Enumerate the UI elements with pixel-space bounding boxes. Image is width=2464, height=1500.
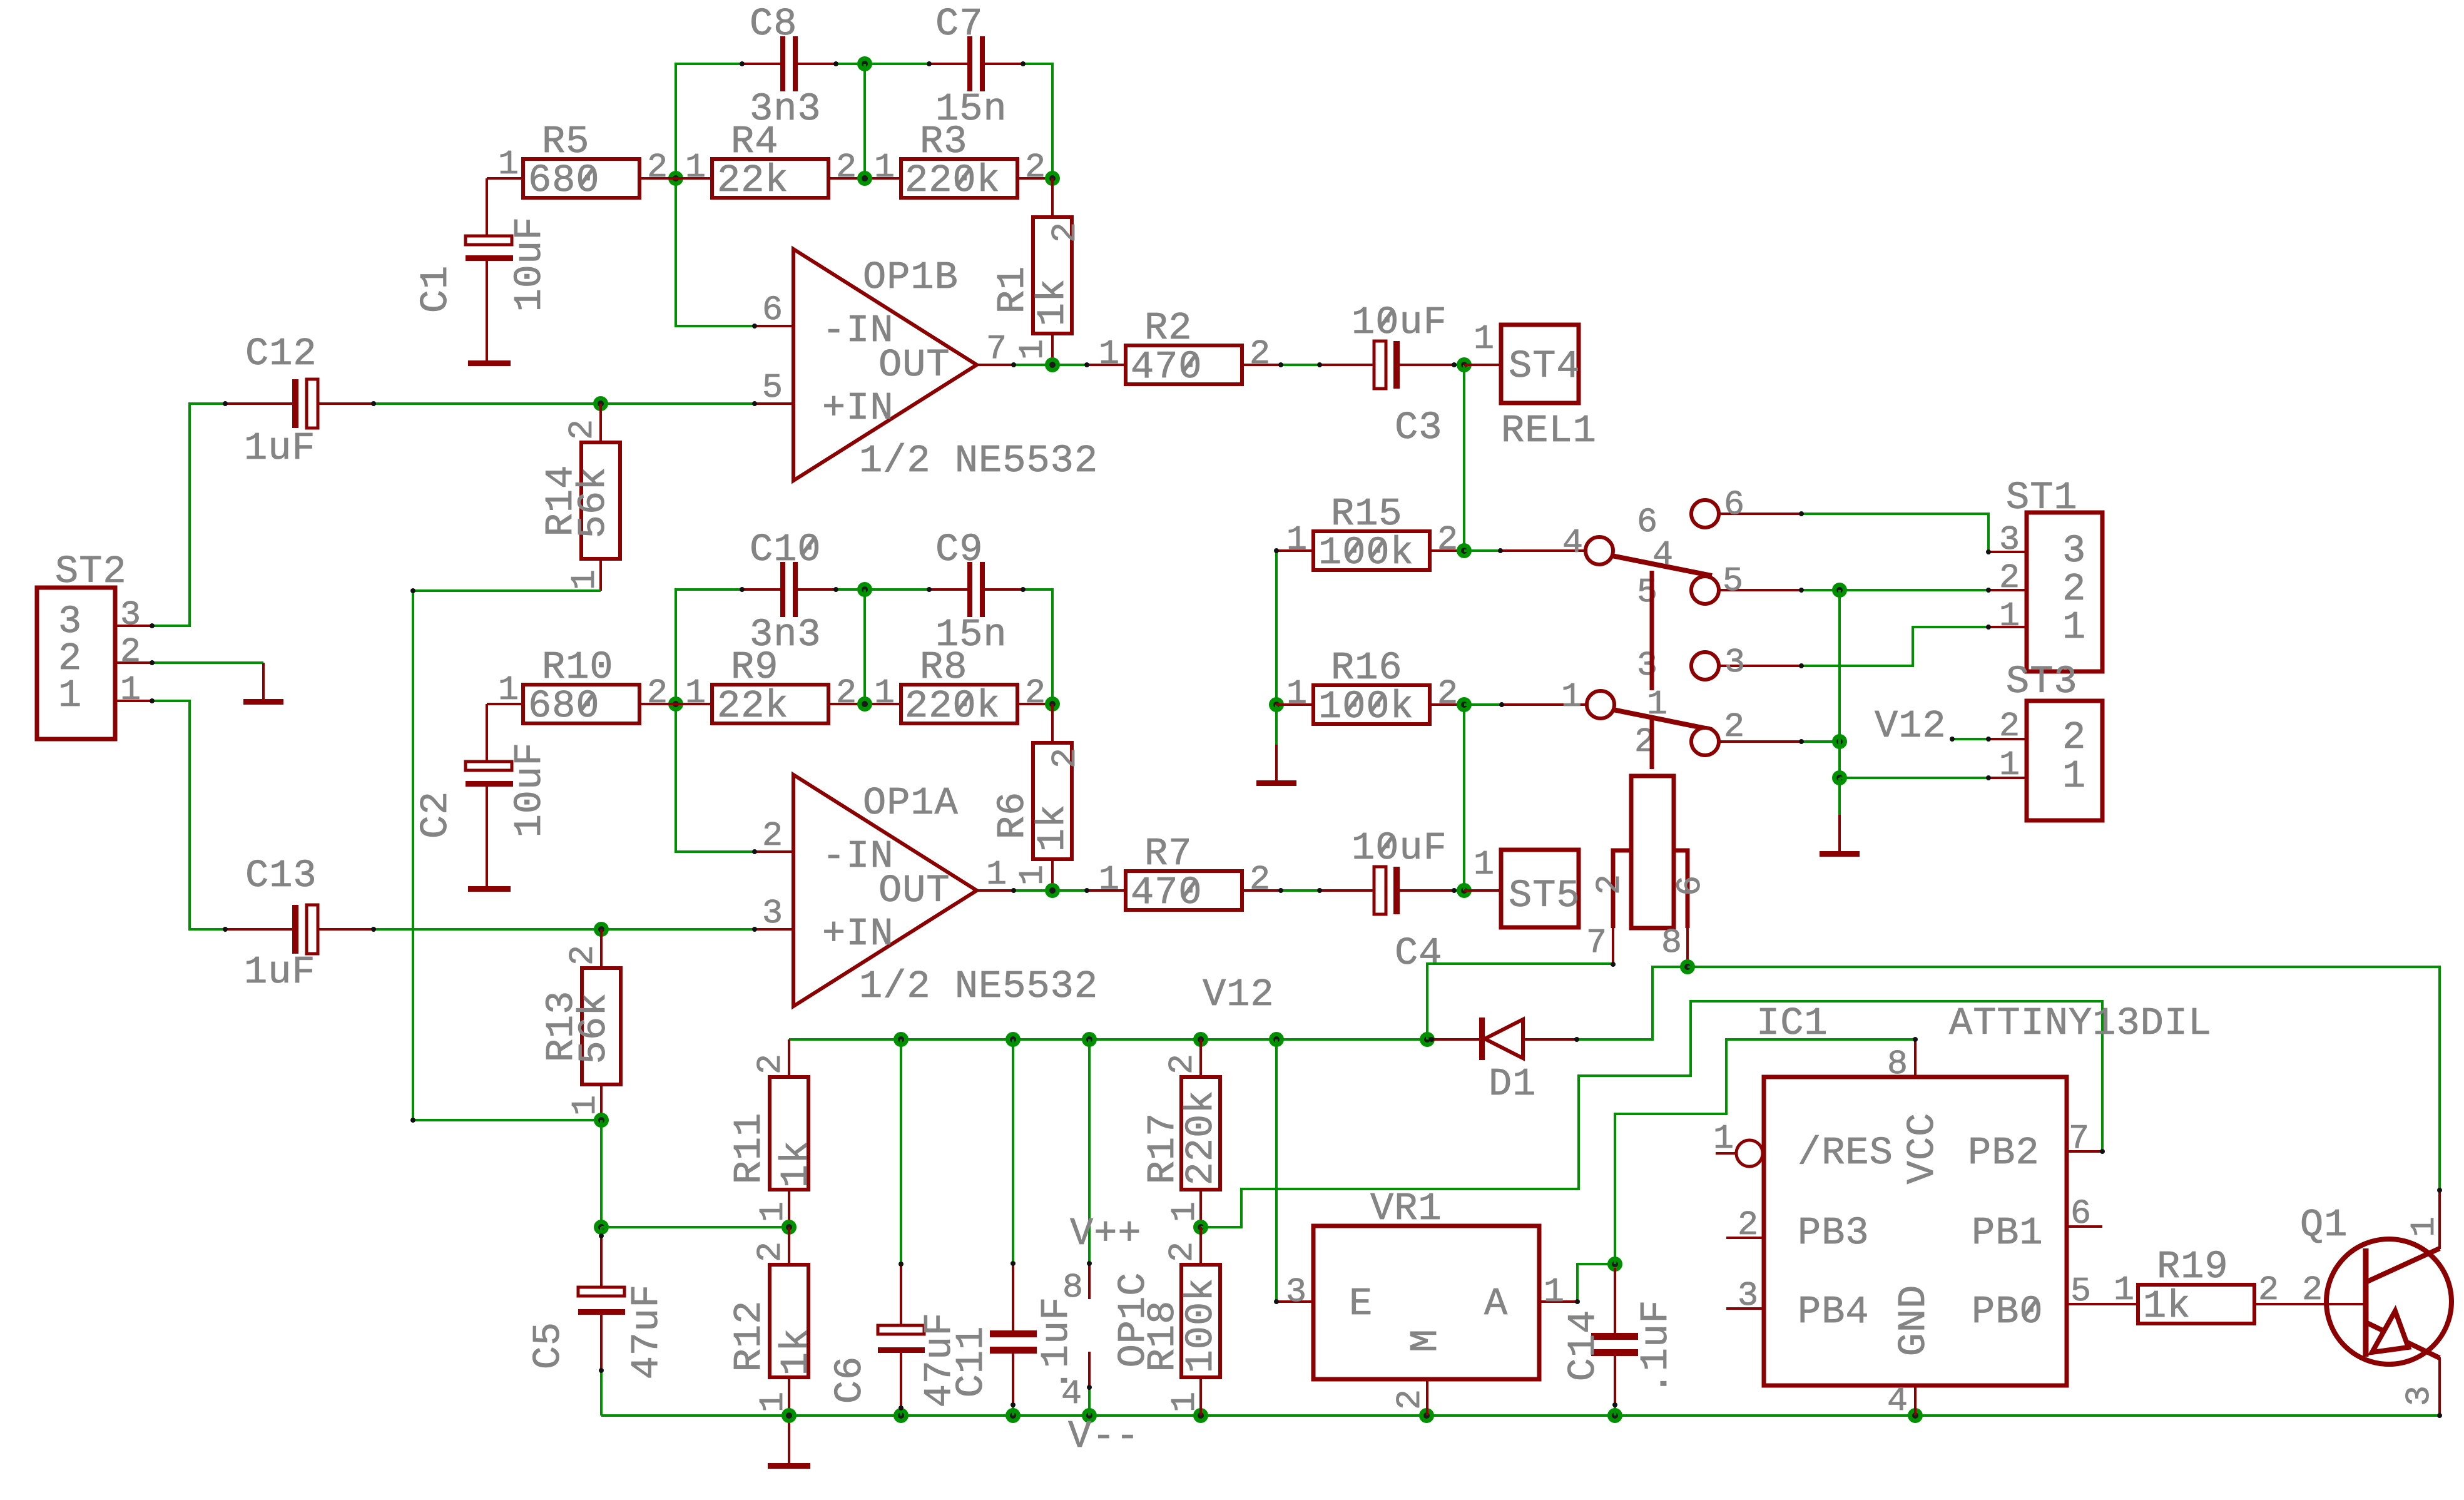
svg-text:2: 2	[751, 1241, 790, 1262]
svg-text:1: 1	[753, 1201, 793, 1222]
switch S1 contact pin 2	[1634, 707, 1801, 762]
capacitor C12 1uF	[225, 332, 374, 471]
node junction bottom rail/R18.1	[1193, 1408, 1208, 1423]
svg-text:1uF: 1uF	[244, 426, 316, 471]
svg-text:C8: C8	[750, 2, 797, 46]
svg-text:10uF: 10uF	[507, 217, 552, 312]
svg-text:2: 2	[647, 673, 668, 713]
wire switch pin6 to ST1 pin3	[1801, 514, 2027, 552]
node junction bottom rail/IC1 GND	[1908, 1408, 1923, 1423]
switch S1 contact pin 6	[1637, 485, 1801, 542]
capacitor C6 47uF	[828, 1039, 962, 1416]
IC1 pin 2 PB3	[1726, 1205, 1764, 1245]
wire ST2 pin1 to C13	[152, 701, 225, 929]
svg-text:1: 1	[874, 148, 895, 187]
svg-text:3: 3	[1724, 643, 1746, 682]
IC1 pin 8 VCC	[1887, 1039, 1915, 1084]
node junction bottom rail/C6	[893, 1408, 909, 1423]
svg-text:2: 2	[1738, 1205, 1759, 1245]
svg-text:2: 2	[1163, 1053, 1202, 1074]
IC1 pin 6 PB1	[2067, 1194, 2102, 1233]
svg-text:C3: C3	[1395, 406, 1442, 450]
svg-text:1: 1	[1099, 334, 1120, 374]
wire C12 right to OP1B +IN with junction	[374, 402, 755, 405]
node junction ST3 pin1 net	[1832, 770, 1847, 785]
svg-text:220k: 220k	[905, 684, 1000, 728]
op-amp OP1B 1/2 NE5532	[755, 249, 1098, 483]
svg-text:10uF: 10uF	[1352, 826, 1447, 870]
svg-text:R9: R9	[731, 645, 778, 690]
svg-text:2: 2	[563, 419, 602, 440]
svg-text:680: 680	[528, 684, 600, 728]
wire VCC junction to IC1 pin8	[1615, 1039, 1915, 1264]
svg-text:3: 3	[120, 595, 141, 635]
svg-text:8: 8	[1062, 1268, 1084, 1307]
svg-text:R19: R19	[2157, 1245, 2229, 1289]
node junction bottom rail/R12.1	[781, 1408, 797, 1423]
svg-text:470: 470	[1131, 345, 1203, 389]
svg-text:REL1: REL1	[1501, 409, 1597, 453]
wire net from R10/R9 junction up to C10	[676, 589, 742, 704]
svg-text:PB1: PB1	[1972, 1211, 2044, 1255]
capacitor C1 10uF	[414, 217, 552, 366]
svg-text:2: 2	[1250, 334, 1271, 374]
svg-text:3: 3	[1637, 646, 1658, 685]
node junction R3.2/R1.2	[1045, 171, 1060, 186]
svg-text:1: 1	[685, 148, 706, 187]
svg-text:4: 4	[1061, 1374, 1082, 1414]
svg-text:R8: R8	[920, 645, 967, 690]
svg-text:1: 1	[498, 145, 519, 184]
svg-text:1: 1	[1165, 1391, 1204, 1412]
capacitor C13 1uF	[225, 854, 374, 994]
node junction rail/VR1.E	[1269, 1032, 1284, 1047]
wire C3 to ST4 pin	[1454, 364, 1464, 366]
svg-text:R5: R5	[542, 120, 589, 164]
wire net from R5/R4 junction down to OP1B -IN	[676, 178, 755, 326]
svg-text:M: M	[1403, 1329, 1448, 1352]
node junction R16.1	[1269, 697, 1284, 712]
wire C9 right to R8.2 vertical	[1023, 589, 1052, 704]
svg-text:2: 2	[762, 816, 783, 855]
node junction R4.2/R3.1	[857, 171, 872, 186]
node junction R16.2/C4 net	[1457, 697, 1472, 712]
node junction R13.1	[594, 1113, 609, 1128]
svg-text:+IN: +IN	[822, 912, 894, 956]
svg-text:1: 1	[1474, 845, 1495, 884]
capacitor C11 .1uF	[949, 1039, 1079, 1416]
wire R13.1 down to C5/R11 row	[600, 1120, 603, 1227]
node junction bottom rail/C14	[1607, 1408, 1622, 1423]
wire R7.2 to C4	[1281, 889, 1320, 892]
node junction R15.2/C3 net	[1457, 543, 1472, 558]
svg-text:1: 1	[2062, 605, 2086, 650]
svg-text:C7: C7	[935, 2, 983, 46]
svg-text:100k: 100k	[1318, 685, 1414, 729]
capacitor C8 3n3	[742, 2, 836, 131]
svg-text:7: 7	[986, 329, 1007, 369]
svg-text:PB3: PB3	[1798, 1211, 1870, 1255]
node junction R9.2/R8.1	[857, 696, 872, 712]
svg-text:2: 2	[1590, 874, 1629, 895]
svg-text:R12: R12	[727, 1300, 771, 1372]
svg-text:2: 2	[1390, 1389, 1430, 1410]
svg-text:2: 2	[1046, 747, 1085, 768]
node junction C5/R11 row	[594, 1220, 609, 1235]
transistor Q1	[2300, 1190, 2451, 1416]
svg-text:5: 5	[1637, 573, 1658, 612]
svg-text:56k: 56k	[571, 467, 616, 539]
wire net from R10/R9 junction down to OP1A -IN	[676, 704, 755, 852]
resistor R2 470	[1087, 306, 1281, 389]
svg-text:1: 1	[874, 673, 895, 713]
wire R14.1 left and down to R13.1 junction	[413, 591, 601, 1120]
svg-text:2: 2	[1724, 707, 1745, 747]
svg-text:100k: 100k	[1179, 1278, 1223, 1374]
svg-text:1: 1	[1561, 677, 1582, 717]
svg-text:1/2 NE5532: 1/2 NE5532	[859, 964, 1098, 1009]
svg-text:OUT: OUT	[878, 343, 950, 387]
svg-text:1uF: 1uF	[244, 950, 316, 994]
svg-text:3: 3	[1999, 520, 2020, 559]
switch S1 actuator shaft	[1650, 571, 1654, 769]
connector ST3	[1999, 660, 2102, 820]
wire C13 right to OP1A +IN with junction	[374, 928, 755, 931]
svg-text:6: 6	[2070, 1194, 2092, 1233]
svg-text:1: 1	[1474, 319, 1495, 359]
connector ST1	[1999, 476, 2102, 671]
svg-text:ST3: ST3	[2006, 660, 2078, 704]
svg-text:C6: C6	[828, 1356, 872, 1404]
svg-text:R16: R16	[1331, 646, 1403, 690]
capacitor C3 10uF	[1320, 300, 1454, 450]
svg-text:3: 3	[2400, 1385, 2439, 1406]
net label V12 at ST3 pin2	[1875, 704, 2027, 748]
svg-text:7: 7	[1586, 923, 1607, 962]
slashed zeros decoration is part of value labels	[580, 168, 2037, 1317]
diode D1	[1432, 1018, 1577, 1106]
switch S1 contact pin 5	[1637, 561, 1801, 612]
svg-text:R1: R1	[990, 266, 1035, 314]
svg-text:C4: C4	[1395, 931, 1442, 976]
wire C5 junction to R11.1	[601, 1226, 789, 1228]
svg-text:1: 1	[1286, 674, 1308, 713]
wire VR1.A to C14 junction	[1577, 1264, 1615, 1302]
resistor R1 1k vertical	[990, 178, 1085, 365]
svg-text:1: 1	[2062, 754, 2086, 798]
wire junction to ST3 pin1	[1840, 777, 2027, 779]
wire switch pin2 to junction	[1801, 740, 1840, 743]
switch S1 contact pin 3	[1637, 643, 1801, 685]
svg-text:ST2: ST2	[55, 549, 127, 594]
capacitor C7 15n	[929, 2, 1023, 131]
svg-text:VCC: VCC	[1900, 1113, 1945, 1185]
svg-text:10uF: 10uF	[1352, 300, 1447, 345]
svg-text:220k: 220k	[905, 158, 1000, 203]
resistor R19 1k	[2114, 1245, 2366, 1329]
resistor R10 680	[487, 645, 676, 762]
connector ST4 REL1	[1464, 319, 1597, 453]
svg-text:1k: 1k	[774, 1140, 818, 1188]
resistor R4 22k	[676, 120, 901, 203]
node junction R11.1/R12.2	[781, 1220, 797, 1235]
node junction C13/R13.2	[594, 922, 609, 937]
svg-text:OUT: OUT	[878, 869, 950, 913]
svg-text:OP1B: OP1B	[863, 255, 959, 300]
svg-text:V12: V12	[1875, 704, 1947, 748]
svg-text:2: 2	[1999, 707, 2020, 746]
node junction bottom rail/V--	[1082, 1408, 1097, 1423]
svg-text:R2: R2	[1144, 306, 1192, 350]
svg-text:2: 2	[751, 1053, 790, 1074]
wire C4 to ST5 pin	[1454, 889, 1464, 892]
svg-text:2: 2	[1437, 674, 1459, 713]
node junction C3/ST4/R15	[1457, 357, 1472, 372]
svg-text:4: 4	[1887, 1381, 1908, 1421]
wire junction C8/C7 down to R4.2/R3.1	[863, 64, 866, 178]
svg-text:1: 1	[1713, 1119, 1734, 1158]
svg-text:3: 3	[1286, 1272, 1307, 1312]
resistor R13 56k vertical	[539, 929, 621, 1120]
svg-text:2: 2	[563, 944, 603, 966]
svg-text:2: 2	[2302, 1270, 2323, 1310]
switch S1 contact pin 4 with lever	[1562, 523, 1712, 576]
ground symbol at ST2 pin2	[243, 663, 283, 705]
svg-text:1: 1	[1013, 339, 1052, 360]
svg-text:22k: 22k	[717, 684, 789, 728]
svg-text:6: 6	[1724, 485, 1745, 524]
svg-text:1: 1	[1286, 520, 1308, 559]
svg-text:2: 2	[836, 673, 857, 713]
svg-text:C11: C11	[949, 1326, 994, 1398]
svg-text:1: 1	[498, 670, 519, 710]
svg-text:ST4: ST4	[1509, 344, 1581, 389]
net label V12 on rail	[1203, 972, 1275, 1017]
svg-text:2: 2	[1046, 222, 1085, 243]
svg-text:R11: R11	[727, 1113, 771, 1185]
power stub OP1C V++ pin 8	[1062, 1039, 1142, 1307]
ground symbol below ST3 net	[1820, 778, 1860, 857]
wire C8 to C7 with junction	[836, 63, 929, 65]
wire junction C4 up to R16.2	[1463, 705, 1465, 890]
wire R15.1 down to R16.1	[1275, 551, 1278, 705]
svg-text:PB4: PB4	[1798, 1290, 1870, 1334]
svg-text:470: 470	[1131, 870, 1203, 915]
svg-text:C13: C13	[245, 854, 317, 898]
wire R2.2 to C3	[1281, 364, 1320, 366]
wire ST2 pin2 to ground	[152, 661, 263, 664]
svg-text:V++: V++	[1070, 1212, 1142, 1256]
node junction relay pin8/Q1 net	[1680, 959, 1695, 974]
wire switch pin3 to ST1 pin1	[1801, 627, 2027, 666]
wire R15.2 junction to switch contact 4	[1464, 549, 1586, 552]
wire junction C3 down to R15.2	[1463, 365, 1465, 551]
resistor R16 100k	[1276, 646, 1464, 729]
resistor R7 470	[1087, 832, 1281, 915]
voltage regulator VR1	[1276, 1039, 1577, 1416]
svg-text:1: 1	[566, 1094, 605, 1116]
svg-text:V12: V12	[1203, 972, 1275, 1017]
resistor R15 100k	[1276, 492, 1464, 575]
node junction bottom rail/C11	[1005, 1408, 1021, 1423]
node junction R8.2/R6.2	[1045, 696, 1060, 712]
svg-text:C1: C1	[414, 265, 458, 313]
IC1 pin 4 GND	[1887, 1381, 1915, 1421]
svg-text:GND: GND	[1891, 1285, 1936, 1357]
resistor R18 100k vertical	[1141, 1227, 1223, 1416]
svg-text:1: 1	[1999, 596, 2020, 636]
svg-text:6: 6	[762, 290, 783, 330]
svg-text:2: 2	[647, 148, 668, 187]
node junction R5.2/R4.1	[668, 171, 683, 186]
node junction rail/V++	[1082, 1032, 1097, 1047]
svg-text:22k: 22k	[717, 158, 789, 203]
node junction C12/R14.2	[593, 396, 608, 411]
svg-text:2: 2	[2258, 1270, 2279, 1310]
wire ST2 pin3 to C12	[152, 404, 225, 626]
svg-text:1: 1	[1013, 864, 1052, 885]
svg-text:E: E	[1349, 1282, 1373, 1326]
capacitor C10 3n3	[742, 528, 836, 657]
svg-text:R4: R4	[731, 120, 778, 164]
svg-text:56k: 56k	[572, 992, 616, 1064]
svg-text:C12: C12	[245, 332, 317, 376]
svg-text:2: 2	[120, 632, 141, 671]
svg-text:1k: 1k	[1031, 804, 1075, 852]
resistor R8 220k	[874, 645, 1052, 728]
svg-text:5: 5	[2070, 1272, 2092, 1311]
svg-text:R10: R10	[542, 645, 614, 690]
svg-text:R3: R3	[920, 120, 967, 164]
svg-text:VR1: VR1	[1370, 1186, 1442, 1231]
svg-text:5: 5	[762, 368, 783, 407]
wire junction to Q1 collector	[1688, 967, 2440, 1190]
svg-text:8: 8	[1887, 1044, 1908, 1084]
svg-text:2: 2	[1025, 148, 1046, 187]
wire riser to relay pin7	[1427, 964, 1613, 1039]
svg-text:6: 6	[1671, 875, 1710, 896]
IC1 pin 1 /RES	[1713, 1119, 1763, 1166]
node junction rail/D1 riser	[1420, 1032, 1435, 1047]
svg-text:4: 4	[1652, 535, 1674, 574]
wire switch pin5 to ST1 pin2	[1801, 589, 2027, 591]
svg-text:4: 4	[1562, 523, 1584, 563]
wire R17/R18 junction to IC1 PB2	[1201, 1001, 2102, 1227]
power stub OP1C V-- pin 4	[1061, 1272, 1156, 1459]
node junction C10/C9	[857, 582, 872, 597]
capacitor C9 15n	[929, 528, 1023, 657]
svg-text:10uF: 10uF	[507, 742, 552, 838]
node junction R10.2/R9.1	[668, 696, 683, 712]
svg-text:680: 680	[528, 158, 600, 203]
svg-text:1k: 1k	[1031, 278, 1075, 326]
wire V12 rail	[789, 1038, 1432, 1041]
connector ST2	[37, 549, 152, 739]
svg-text:ST5: ST5	[1509, 874, 1581, 918]
svg-text:1: 1	[1099, 860, 1120, 899]
svg-text:ATTINY13DIL: ATTINY13DIL	[1949, 1001, 2212, 1046]
svg-text:1: 1	[2114, 1270, 2135, 1310]
wire bottom V-- rail	[601, 1414, 2439, 1417]
resistor R3 220k	[874, 120, 1052, 203]
svg-text:D1: D1	[1489, 1062, 1536, 1106]
svg-text:C5: C5	[526, 1322, 571, 1369]
svg-text:1k: 1k	[2143, 1284, 2191, 1329]
wire R16.2 junction to switch contact 1	[1464, 703, 1587, 706]
svg-text:1k: 1k	[774, 1328, 818, 1375]
resistor R5 680	[487, 120, 676, 236]
svg-text:100k: 100k	[1318, 531, 1414, 575]
switch S1 contact pin 1 with lever	[1561, 677, 1712, 730]
svg-text:V--: V--	[1068, 1414, 1140, 1459]
node junction contact5 net	[1832, 583, 1847, 598]
svg-text:C9: C9	[935, 528, 983, 572]
node junction contact2 net	[1832, 734, 1847, 749]
svg-text:5: 5	[1723, 561, 1744, 601]
capacitor C4 10uF	[1320, 826, 1454, 976]
wire junction C10/C9 down to R9.2/R8.1	[863, 589, 866, 704]
svg-text:IC1: IC1	[1756, 1001, 1828, 1046]
IC1 pin 3 PB4	[1726, 1276, 1764, 1315]
ground symbol below R16.1	[1256, 705, 1296, 786]
resistor R6 1k vertical	[990, 704, 1085, 890]
wire D1 anode up to relay pin8 junction	[1577, 967, 1688, 1039]
wire vertical net pin5 to ST3 pin1 row	[1838, 590, 1841, 778]
svg-text:3: 3	[1738, 1276, 1759, 1315]
svg-text:/RES: /RES	[1798, 1131, 1893, 1175]
svg-text:R7: R7	[1144, 832, 1192, 876]
svg-text:2: 2	[1999, 558, 2020, 598]
svg-text:R15: R15	[1331, 492, 1403, 536]
ground symbol below R12	[768, 1416, 810, 1469]
svg-text:C14: C14	[1561, 1310, 1606, 1382]
resistor R9 22k	[676, 645, 901, 728]
wire C10 to C9 with junction	[836, 588, 929, 591]
svg-text:2: 2	[1437, 520, 1459, 559]
svg-text:47uF: 47uF	[624, 1284, 669, 1380]
op-amp OP1A 1/2 NE5532	[755, 775, 1098, 1009]
svg-text:1: 1	[685, 673, 706, 713]
resistor R12 1k vertical	[727, 1227, 818, 1416]
svg-text:PB2: PB2	[1968, 1131, 2040, 1175]
node junction OUT/R1.1	[1045, 357, 1060, 372]
svg-text:+IN: +IN	[822, 386, 894, 431]
svg-text:1: 1	[986, 855, 1007, 894]
svg-text:7: 7	[2069, 1119, 2090, 1158]
node junction bottom rail/VR1.M	[1419, 1408, 1434, 1423]
node junction R17.1/R18.2	[1193, 1220, 1208, 1235]
svg-text:2: 2	[1025, 673, 1046, 713]
node junction rail/R17	[1193, 1032, 1208, 1047]
svg-text:ST1: ST1	[2006, 476, 2078, 520]
svg-text:Q1: Q1	[2300, 1203, 2348, 1247]
wire C7 right to R3.2 vertical	[1023, 64, 1052, 178]
capacitor C14 .1uF	[1561, 1268, 1678, 1416]
svg-text:OP1A: OP1A	[863, 781, 959, 825]
svg-text:PB0: PB0	[1972, 1290, 2044, 1334]
wire OP1A output to R7	[1014, 889, 1087, 892]
svg-text:1: 1	[58, 673, 82, 718]
svg-text:8: 8	[1661, 923, 1683, 962]
svg-text:3: 3	[762, 894, 783, 933]
resistor R17 220k vertical	[1141, 1039, 1223, 1227]
relay coil body S1	[1586, 776, 1710, 967]
capacitor C2 10uF	[414, 742, 552, 892]
svg-text:2: 2	[1250, 860, 1271, 899]
svg-text:2: 2	[2062, 715, 2086, 760]
wire OP1B output to R2	[1014, 364, 1087, 366]
node junction rail/C6	[893, 1032, 909, 1047]
